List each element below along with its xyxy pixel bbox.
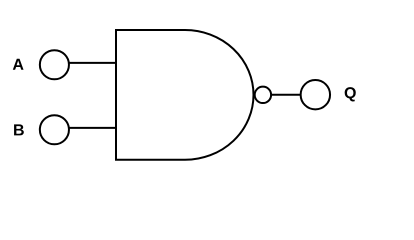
wire B to gate (69, 127, 116, 129)
node B label (14, 124, 24, 135)
node Q label (345, 87, 356, 101)
wire A to gate (69, 62, 116, 64)
input terminal A (40, 50, 69, 79)
wire bubble to output terminal (271, 94, 301, 96)
input terminal B (40, 115, 69, 144)
NAND gate U1 body (116, 30, 254, 160)
node A label (13, 59, 24, 70)
output terminal Q (301, 80, 330, 109)
inversion bubble (255, 87, 271, 103)
